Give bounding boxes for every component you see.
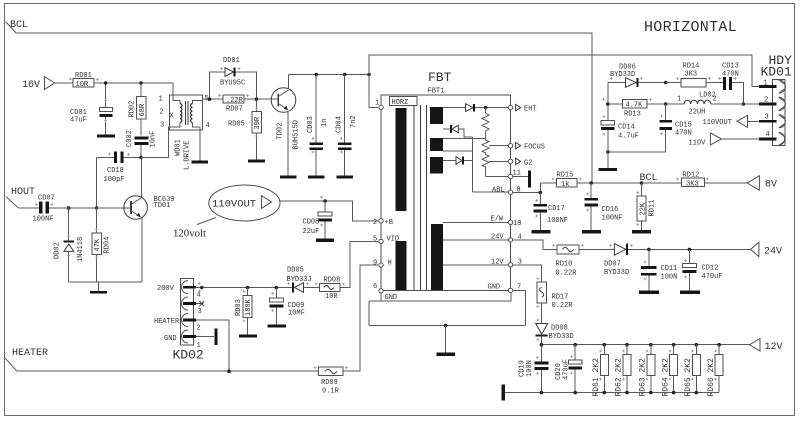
capacitor CD20 (555, 345, 582, 393)
svg-text:GND: GND (164, 335, 177, 343)
diode DD02 (54, 208, 86, 282)
wire FBT 24V internal (443, 234, 511, 242)
resistor RD17 fusible (537, 282, 573, 323)
svg-text:.22R: .22R (226, 97, 244, 105)
svg-text:CD16: CD16 (602, 206, 619, 214)
resistor RD02 (129, 83, 147, 136)
svg-text:RD01: RD01 (75, 72, 92, 80)
svg-text:110V: 110V (689, 140, 707, 148)
inductor LD02 (666, 92, 760, 117)
output 24V (751, 242, 783, 257)
pin FBT 8 ABL (508, 187, 520, 195)
svg-text:DD01: DD01 (223, 57, 240, 65)
svg-text:+B: +B (385, 219, 393, 227)
svg-text:RD05: RD05 (228, 121, 245, 129)
net HOUT (6, 187, 39, 208)
svg-text:2: 2 (160, 109, 164, 117)
capacitor CD09 (269, 288, 305, 325)
svg-text:0.22R: 0.22R (552, 302, 574, 310)
svg-text:10MF: 10MF (288, 310, 305, 318)
svg-text:110VOUT: 110VOUT (703, 119, 732, 127)
svg-text:24V: 24V (764, 247, 782, 258)
svg-text:100NF: 100NF (33, 216, 54, 224)
diode FBT d2 (443, 125, 473, 137)
svg-text:0.1R: 0.1R (322, 388, 340, 396)
svg-text:110VOUT: 110VOUT (212, 199, 256, 211)
svg-text:WD01: WD01 (175, 139, 183, 156)
svg-text:RD17: RD17 (552, 294, 569, 302)
pin FBT 10 EW (508, 220, 521, 228)
wire 12V pin3 (513, 265, 542, 282)
input 110V to pin4 (689, 133, 760, 148)
svg-text:HORIZONTAL: HORIZONTAL (644, 19, 737, 36)
svg-text:BYD33D: BYD33D (549, 333, 574, 341)
ground RD05 (248, 160, 265, 163)
ground 12V bus (502, 385, 506, 401)
capacitor CD19 (519, 345, 549, 393)
svg-text:CD15: CD15 (675, 122, 692, 130)
diode FBT EHT (466, 104, 511, 112)
pin FBT 11 (508, 170, 531, 188)
svg-text:KD02: KD02 (173, 348, 204, 363)
svg-text:3K3: 3K3 (685, 70, 698, 78)
svg-text:FOCUS: FOCUS (524, 144, 545, 152)
svg-text:10nF: 10nF (150, 131, 158, 148)
resistor RD65 (684, 345, 700, 397)
wire FBT 12V internal (443, 258, 511, 266)
svg-text:TD01: TD01 (154, 202, 171, 210)
svg-text:H: H (388, 260, 392, 268)
ground CD11 (639, 291, 659, 295)
svg-text:TD02: TD02 (277, 123, 285, 140)
svg-text:47K: 47K (94, 238, 102, 251)
svg-text:G2: G2 (524, 159, 532, 167)
ground CD04 (337, 176, 354, 179)
diode DD01 (210, 57, 257, 99)
diode DD07 (604, 244, 751, 277)
pin FBT G2 (508, 158, 532, 167)
no-connect X pin3 (196, 301, 204, 306)
svg-text:RD65 2K2: RD65 2K2 (684, 358, 693, 397)
ground CD01 (97, 135, 115, 138)
svg-text:3K3: 3K3 (686, 181, 699, 189)
ground CD08 (316, 239, 334, 242)
input 16V (22, 77, 73, 92)
wire DD06 left vertical (606, 83, 610, 121)
svg-text:1: 1 (677, 96, 681, 104)
output 8V (747, 176, 777, 191)
svg-text:1: 1 (159, 96, 163, 104)
svg-text:5: 5 (373, 236, 377, 244)
svg-text:470uF: 470uF (563, 359, 571, 380)
resistor RD14 (666, 63, 723, 88)
svg-text:CD14: CD14 (618, 124, 635, 132)
svg-text:4: 4 (206, 122, 210, 130)
pin FBT 1 (379, 105, 383, 109)
wire 12V ground bus (505, 391, 719, 395)
svg-text:HEATER: HEATER (12, 348, 48, 359)
svg-text:DD05: DD05 (287, 267, 304, 275)
svg-text:CD18: CD18 (107, 167, 124, 175)
capacitor CD15 (606, 104, 692, 154)
svg-text:0.22R: 0.22R (556, 270, 578, 278)
svg-text:7n2: 7n2 (350, 115, 358, 128)
svg-text:KD01: KD01 (761, 65, 792, 80)
svg-text:RD61 2K2: RD61 2K2 (592, 358, 601, 397)
resistor RD01 (73, 72, 173, 89)
ground RD11 (632, 230, 651, 234)
svg-text:8: 8 (517, 187, 521, 195)
transformer FBT1 box (381, 70, 511, 291)
svg-text:4.7uF: 4.7uF (618, 133, 639, 141)
svg-text:1: 1 (764, 80, 768, 88)
ground CD17 (532, 230, 551, 234)
svg-text:2: 2 (764, 97, 768, 105)
transistor TD02 (271, 75, 300, 176)
pin FBT EHT (508, 104, 536, 113)
diode DD08 (536, 324, 574, 345)
ground CD03 (308, 176, 325, 179)
output 110VOUT to pin3 (703, 115, 760, 127)
core FBT (414, 105, 426, 290)
svg-text:2: 2 (197, 325, 201, 333)
capacitor CD13 (722, 63, 745, 106)
wire EHT internal (443, 107, 466, 109)
resistor FBT focus chain (482, 108, 510, 177)
svg-text:3: 3 (160, 122, 164, 130)
svg-text:9: 9 (373, 260, 377, 268)
svg-text:EHT: EHT (524, 106, 537, 114)
pin FBT 2 +B (373, 219, 393, 227)
svg-text:39R: 39R (254, 116, 262, 129)
ground CD16 (582, 230, 601, 234)
wire FBT focus tap (489, 145, 510, 147)
svg-text:10R: 10R (76, 81, 89, 89)
winding FBT HV segments (430, 107, 443, 174)
svg-text:22K: 22K (639, 202, 647, 215)
svg-text:470N: 470N (675, 130, 692, 138)
capacitor CD04 (336, 75, 359, 176)
ground FBT (437, 353, 456, 357)
resistor RD66 (707, 345, 723, 397)
svg-text:12V: 12V (491, 258, 504, 266)
svg-text:BYD33D: BYD33D (610, 71, 635, 79)
wire FBT G2 tap (489, 160, 510, 162)
wire FBT ground bus (369, 290, 525, 352)
svg-text:CD17: CD17 (548, 205, 565, 213)
svg-text:HOUT: HOUT (11, 187, 35, 198)
capacitor CD11 (641, 249, 677, 290)
svg-text:CD12: CD12 (702, 265, 719, 273)
capacitor CD14 (601, 121, 639, 168)
resistor RD15 (556, 172, 643, 189)
pin FBT 7 GND (508, 284, 521, 293)
svg-text:RD09: RD09 (321, 379, 338, 387)
capacitor CD03 (307, 75, 329, 176)
ground TD01 (90, 291, 107, 294)
resistor RD61 (592, 345, 608, 397)
svg-text:CD11: CD11 (661, 265, 678, 273)
wire to FBT and KD01 top (369, 55, 760, 108)
svg-text:DD07: DD07 (604, 261, 621, 269)
net HEATER rail (5, 348, 319, 371)
svg-text:RD11: RD11 (649, 200, 657, 217)
capacitor CD07 (33, 195, 132, 224)
svg-text:2: 2 (373, 219, 377, 227)
resistor RD13 (608, 99, 668, 118)
ground KD02 pin1 (196, 328, 218, 345)
winding FBT LV (431, 224, 443, 290)
svg-text:X: X (170, 113, 175, 121)
svg-text:22UH: 22UH (689, 109, 706, 117)
svg-text:100NF: 100NF (602, 215, 623, 223)
svg-text:GND: GND (488, 284, 501, 292)
wire 24V out (513, 240, 557, 250)
wire collector rail (288, 73, 370, 77)
net BCL top rail (6, 20, 592, 183)
resistor RD08 fusible (319, 241, 378, 301)
pin FBT 9 H (373, 260, 392, 268)
resistor RD10 fusible (556, 245, 615, 278)
svg-text:12V: 12V (765, 342, 783, 353)
svg-text:BCL: BCL (640, 173, 658, 184)
node RD07 junctions (208, 97, 259, 101)
diode DD05 (287, 267, 320, 293)
svg-text:100N: 100N (661, 274, 678, 282)
ground WD01 pin4 (192, 161, 209, 164)
svg-text:100NF: 100NF (547, 217, 568, 225)
transformer WD01 (141, 83, 210, 170)
wire FBT ABL internal (473, 187, 511, 195)
svg-text:HORZ: HORZ (392, 99, 409, 107)
pin FBT 3 12V (508, 258, 522, 267)
connector KD02 (154, 279, 204, 363)
wire FBT seg2 bottom (443, 150, 473, 152)
svg-text:22uF: 22uF (303, 228, 320, 236)
svg-text:FBT: FBT (428, 70, 452, 85)
svg-text:1N4118: 1N4118 (77, 237, 85, 262)
capacitor CD18 (97, 152, 142, 185)
pin FBT 4 24V (508, 234, 521, 243)
svg-text:8V: 8V (765, 180, 777, 191)
svg-text:RD63 2K2: RD63 2K2 (639, 358, 648, 397)
svg-text:DD02: DD02 (54, 242, 62, 259)
resistor RD09 fusible (319, 265, 379, 395)
node HORZ label (375, 97, 417, 108)
wire CD18 left to base node (96, 158, 98, 209)
node 110VOUT oval (173, 185, 378, 240)
svg-text:47uF: 47uF (70, 117, 87, 125)
wire ABL out (513, 183, 557, 194)
resistor RD64 (661, 345, 677, 397)
svg-text:RD62 2K2: RD62 2K2 (615, 358, 624, 397)
svg-text:180K: 180K (245, 298, 253, 316)
wire 12V rail (540, 343, 750, 347)
resistor RD63 (639, 345, 655, 397)
capacitor C002 (126, 130, 158, 157)
capacitor CD01 (70, 83, 113, 135)
svg-text:4: 4 (197, 292, 201, 300)
svg-text:RD13: RD13 (624, 111, 641, 119)
resistor RD07 (210, 95, 279, 114)
svg-text:RD66 2K2: RD66 2K2 (707, 358, 716, 397)
resistor RD03 (235, 288, 253, 335)
svg-text:RD14: RD14 (683, 63, 700, 71)
resistor RD11 (637, 183, 657, 230)
resistor RD62 (615, 345, 631, 397)
svg-text:CD13: CD13 (722, 63, 739, 71)
transistor TD01 (124, 158, 175, 283)
resistor RD12 (642, 172, 748, 189)
capacitor CD08 (303, 201, 333, 239)
wire FBT EW internal (443, 216, 511, 224)
svg-text:1n: 1n (321, 119, 329, 127)
svg-text:100pF: 100pF (104, 176, 125, 184)
svg-text:2: 2 (713, 96, 717, 104)
ground CD09 (268, 324, 287, 327)
resistor RD05 (228, 99, 262, 159)
svg-text:HEATER: HEATER (154, 318, 180, 326)
capacitor CD16 (585, 183, 623, 230)
svg-text:100N: 100N (526, 360, 534, 377)
diode DD06 (608, 64, 668, 88)
svg-text:RD08: RD08 (324, 277, 341, 285)
svg-text:RD12: RD12 (683, 172, 700, 180)
svg-text:1: 1 (375, 100, 379, 108)
svg-text:10R: 10R (325, 293, 338, 301)
svg-text:BYD33D: BYD33D (604, 269, 629, 277)
pin FBT 5 VID (373, 236, 399, 244)
wire FBT GND internal (488, 284, 501, 292)
resistor RD04 (92, 208, 112, 282)
svg-text:RD07: RD07 (226, 106, 243, 114)
svg-text:BYD33J: BYD33J (287, 276, 312, 284)
svg-text:RD04: RD04 (104, 237, 112, 254)
svg-text:VID: VID (387, 236, 400, 244)
svg-text:C002: C002 (126, 130, 134, 147)
ground TD02 (280, 176, 297, 179)
ground CD12 (680, 291, 700, 295)
connector KD01 (759, 53, 792, 145)
svg-text:3: 3 (198, 308, 202, 316)
svg-text:RD10: RD10 (556, 261, 573, 269)
svg-text:470uF: 470uF (702, 273, 723, 281)
title HORIZONTAL (644, 19, 737, 36)
wire KD02 pin2 heater (196, 320, 231, 373)
svg-text:4.7K: 4.7K (626, 102, 644, 110)
node base junctions (67, 81, 143, 210)
svg-text:RD64 2K2: RD64 2K2 (661, 358, 670, 397)
diode FBT d3 (443, 157, 473, 165)
svg-text:E/W: E/W (491, 216, 504, 224)
ground RD03 (239, 335, 257, 338)
capacitor CD17 (534, 193, 569, 230)
winding FBT primary (396, 108, 407, 290)
svg-text:CD08: CD08 (303, 219, 320, 227)
svg-text:BUH515D: BUH515D (293, 120, 301, 149)
svg-text:1k: 1k (561, 181, 569, 189)
svg-text:16V: 16V (22, 80, 40, 91)
svg-text:FBT1: FBT1 (428, 88, 445, 96)
pin FBT FOCUS (508, 143, 545, 152)
svg-text:10: 10 (513, 220, 521, 228)
pin tick marks (35, 67, 737, 380)
node BCL right (640, 173, 658, 184)
svg-text:120volt: 120volt (173, 228, 206, 240)
svg-text:DD08: DD08 (551, 325, 568, 333)
svg-text:CD07: CD07 (38, 195, 55, 203)
svg-text:4: 4 (766, 131, 770, 139)
svg-text:RD15: RD15 (557, 172, 574, 180)
svg-text:CD03: CD03 (307, 116, 315, 133)
svg-text:3: 3 (765, 114, 769, 122)
wire emitter bottom (69, 282, 142, 291)
wire 200V net (196, 286, 292, 290)
svg-text:RD03: RD03 (235, 299, 243, 316)
ground CD14 (599, 168, 618, 171)
svg-text:200V: 200V (157, 285, 175, 293)
wire FBT seg2 top (443, 138, 486, 140)
capacitor CD12 (682, 249, 722, 290)
svg-text:470N: 470N (722, 70, 739, 78)
svg-text:CD04: CD04 (336, 116, 344, 133)
svg-text:BYU95C: BYU95C (220, 80, 245, 88)
svg-text:L.DRIVE: L.DRIVE (184, 141, 192, 170)
svg-text:6: 6 (373, 283, 377, 291)
svg-text:68R: 68R (139, 103, 147, 116)
wire FBT inner vertical (472, 137, 474, 192)
output 12V (750, 339, 783, 354)
svg-text:ABL: ABL (492, 187, 505, 195)
svg-text:RD02: RD02 (129, 101, 137, 118)
svg-text:24V: 24V (491, 234, 504, 242)
pin FBT 6 GND (373, 283, 397, 302)
